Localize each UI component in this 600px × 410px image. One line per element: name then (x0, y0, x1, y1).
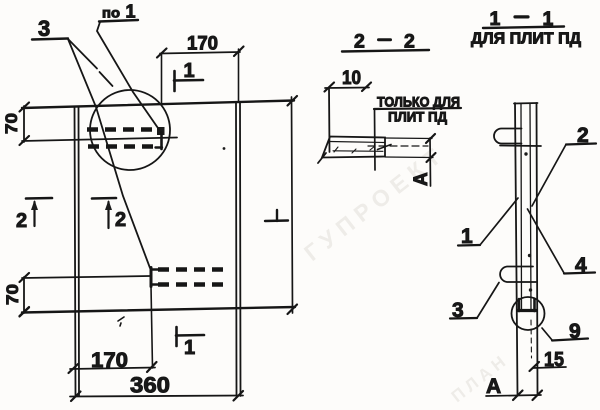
svg-text:по: по (102, 6, 120, 21)
tick 360 left (71, 392, 81, 402)
tick 70 lower bottom (20, 308, 30, 317)
dim 360 line (70, 396, 243, 397)
dim 70 lower vertical line (23, 277, 25, 313)
plate bottom edge (22, 307, 295, 313)
bar inner right line (530, 104, 531, 309)
weld line across bar (500, 145, 541, 148)
svg-text:170: 170 (187, 34, 218, 55)
plate top edge (22, 101, 294, 109)
section mark 1 top (173, 71, 176, 91)
bar inner dashed below (530, 320, 533, 358)
section mark 2 middle (92, 197, 116, 200)
leader 3 to lower anchor (68, 39, 150, 268)
dashed centerline (368, 145, 428, 147)
bar top cap (514, 102, 538, 105)
leader po 1 (97, 22, 159, 130)
lower hook loop (500, 267, 536, 283)
tick top-right (288, 96, 298, 106)
tick top-left (20, 103, 30, 112)
svg-text:ДЛЯ ПЛИТ ПД: ДЛЯ ПЛИТ ПД (471, 31, 582, 48)
dim 70 upper extension line (22, 138, 177, 142)
svg-text:ПЛИТ ПД: ПЛИТ ПД (388, 109, 447, 125)
svg-text:2: 2 (354, 31, 365, 53)
svg-text:170: 170 (91, 349, 128, 372)
dim 170 top left extension (161, 53, 163, 104)
rebar dots (524, 152, 527, 155)
lower anchor dashed bar 2 (158, 282, 230, 287)
svg-text:360: 360 (130, 373, 170, 398)
dim A (2-2) (429, 138, 432, 186)
svg-text:А: А (486, 375, 501, 398)
section mark 1 bottom (175, 327, 178, 346)
tick 170 top right (234, 47, 244, 57)
tick 360 right (234, 391, 244, 401)
dim 170 bottom line (70, 368, 155, 370)
plate left edge double line (75, 107, 76, 397)
tick 70 upper bottom (20, 136, 30, 145)
dot artifact (223, 147, 226, 150)
upper anchor dashed bar 2 (88, 144, 156, 149)
note leader (374, 110, 377, 170)
dim 70 lower extension line (22, 276, 150, 278)
lower anchor end plate (150, 268, 153, 287)
break squiggle (378, 145, 392, 150)
dim 170 top line (160, 52, 240, 54)
thin extension bottom (385, 156, 433, 159)
dim 70 upper vertical line (23, 106, 25, 142)
thin extension top (385, 137, 432, 140)
section mark 2 left (26, 197, 52, 200)
lower anchor extension to dim (151, 286, 153, 368)
upper hook loop (494, 129, 522, 144)
tick 70 lower top (20, 273, 30, 282)
tick 170 bottom left (69, 364, 79, 373)
bar outer right line (537, 103, 538, 395)
tick 170 bottom right (147, 362, 157, 372)
watermark (299, 144, 509, 406)
svg-text:А: А (411, 172, 432, 186)
svg-text:1: 1 (184, 60, 195, 82)
right side extension line (292, 97, 293, 313)
hatching 2-2 (334, 147, 338, 152)
left edge line 2-2 (328, 88, 331, 152)
socket U (518, 299, 521, 311)
svg-text:70: 70 (2, 113, 21, 134)
dim 170 top right extension (238, 49, 240, 102)
svg-text:10: 10 (342, 68, 361, 89)
tick bottom-right (288, 305, 298, 315)
svg-text:2: 2 (16, 210, 27, 232)
upper anchor dashed bar 1 (87, 127, 156, 132)
detail circle 1-1 (512, 297, 545, 330)
svg-text:3: 3 (38, 16, 50, 41)
bar inner left line (520, 104, 523, 309)
tick 170 top left (157, 49, 167, 58)
svg-text:70: 70 (3, 284, 22, 305)
scribble under plate (118, 317, 124, 326)
section mark 1 right (276, 210, 278, 221)
tick at bar left end (318, 153, 326, 163)
svg-text:1: 1 (184, 337, 195, 359)
plate right edge double line (235, 103, 238, 397)
svg-text:1: 1 (126, 1, 136, 21)
tick bottom-left (20, 307, 30, 316)
svg-text:2: 2 (115, 209, 126, 231)
upper anchor end plate (157, 127, 165, 135)
section bar 2-2 (322, 137, 385, 158)
detail circle on plan (90, 90, 170, 170)
lower anchor dashed bar 1 (158, 267, 230, 272)
bar outer left line (515, 103, 518, 395)
leader 3 to upper anchor (68, 39, 97, 69)
